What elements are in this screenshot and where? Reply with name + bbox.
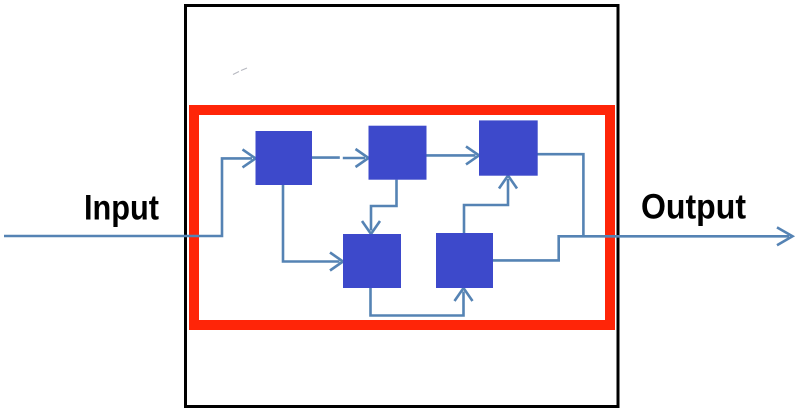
block B4 xyxy=(343,234,401,288)
arrowhead output xyxy=(777,227,793,245)
block B5 xyxy=(436,233,493,288)
wire B1 to B2 second segment xyxy=(343,157,365,160)
wire B1 to B2 xyxy=(312,156,340,159)
arrowhead into block B5 bottom xyxy=(455,288,473,301)
svg-text:Input: Input xyxy=(84,189,159,228)
wire input xyxy=(4,158,252,236)
wire B1 down to B4 xyxy=(283,185,340,262)
wire B2 to B3 xyxy=(427,154,476,157)
red subsystem box xyxy=(194,110,610,325)
stray pen mark xyxy=(233,68,247,75)
outer system box xyxy=(186,6,619,407)
block B3 xyxy=(479,120,538,175)
wire B4 bottom to B5 bottom xyxy=(371,288,464,316)
wire B5 to output xyxy=(493,236,789,260)
svg-text:Output: Output xyxy=(641,188,746,227)
arrowhead into block B3 xyxy=(466,146,479,164)
block B1 xyxy=(256,131,313,185)
wire B2 down to B4 top xyxy=(371,180,397,231)
arrowhead into block B4 left xyxy=(330,253,343,271)
wire B5 top to B3 bottom xyxy=(464,179,508,233)
arrowhead into block B3 bottom xyxy=(499,176,517,189)
block B2 xyxy=(369,126,427,180)
arrowhead into block B2 xyxy=(356,149,369,167)
arrowhead into block B1 xyxy=(243,149,256,167)
arrowhead into block B4 top xyxy=(362,221,380,234)
wire B3 to output xyxy=(538,154,584,236)
